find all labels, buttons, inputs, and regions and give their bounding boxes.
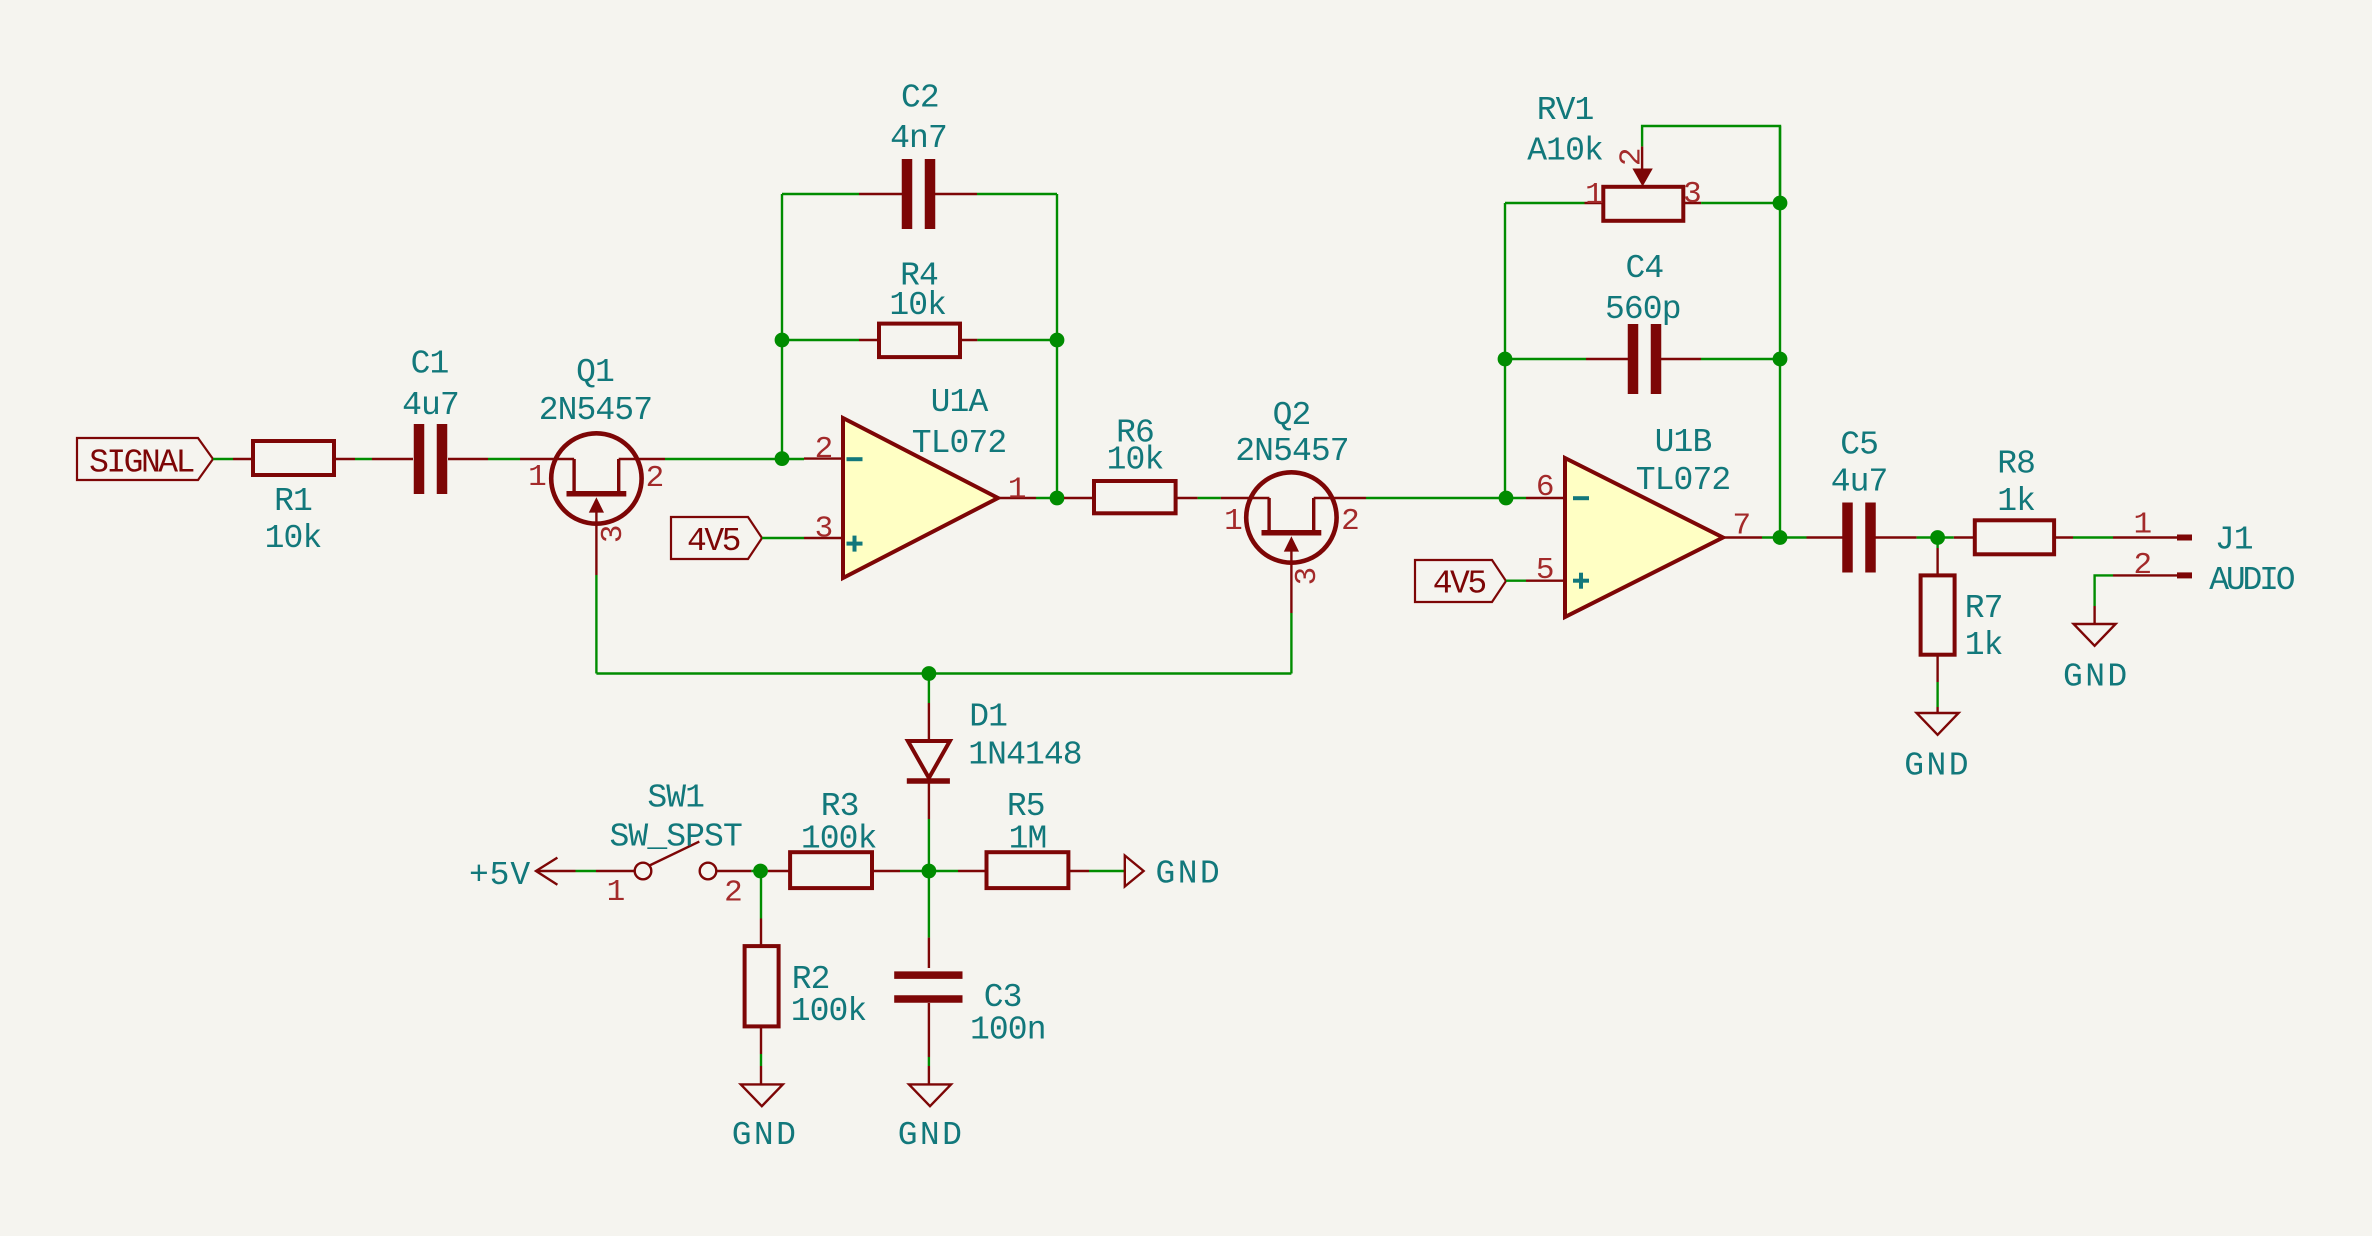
junction at R2 top <box>753 864 768 879</box>
wire R8 to J1 pin1 <box>2073 536 2113 538</box>
wire R4 row right <box>977 339 1057 341</box>
svg-text:J1: J1 <box>2215 522 2253 559</box>
wire U1B feedback left vertical <box>1504 203 1506 498</box>
svg-text:2N5457: 2N5457 <box>539 392 652 429</box>
wire feedback left vertical <box>781 194 783 459</box>
wire R7 to GND <box>1936 682 1938 707</box>
junction at U1B pin6 <box>1499 491 1514 506</box>
resistor R4 <box>859 258 977 357</box>
ground J1 <box>2063 606 2130 696</box>
net label 4V5 (U1B) <box>1415 560 1506 602</box>
wire R3 to center junction <box>900 870 929 872</box>
svg-text:U1A: U1A <box>931 384 989 421</box>
resistor R6 <box>1064 414 1198 513</box>
wire Q1 source down to bottom bus <box>595 575 597 674</box>
wire C4 row right <box>1701 358 1780 360</box>
svg-text:6: 6 <box>1536 470 1554 505</box>
wire RV1 pin3 row <box>1701 202 1780 204</box>
svg-text:2N5457: 2N5457 <box>1235 433 1348 470</box>
wire D1 to switch row <box>928 819 930 871</box>
wire J1 pin2 to GND <box>2095 575 2113 606</box>
svg-text:GND: GND <box>1904 748 1971 785</box>
svg-text:10k: 10k <box>265 520 322 557</box>
wire R1 to C1 <box>355 458 372 460</box>
resistor R8 <box>1954 446 2073 555</box>
wire R4 row left <box>782 339 859 341</box>
svg-text:2: 2 <box>724 875 742 910</box>
svg-text:2: 2 <box>1614 147 1649 166</box>
svg-text:1k: 1k <box>1997 483 2035 520</box>
wire Q2 source down to bottom bus <box>1290 613 1292 674</box>
svg-text:10k: 10k <box>1107 442 1164 479</box>
svg-text:2: 2 <box>1341 504 1359 539</box>
wire RV1 wiper loop <box>1642 126 1780 203</box>
svg-text:C4: C4 <box>1625 250 1663 287</box>
resistor R1 <box>233 441 355 557</box>
transistor Q1 2N5457 <box>520 354 665 575</box>
wire junction down to C3 <box>928 871 930 938</box>
svg-text:10k: 10k <box>889 287 946 324</box>
connector J1 AUDIO <box>2113 508 2295 600</box>
wire U1B feedback right vertical <box>1779 126 1781 537</box>
resistor R2 <box>745 919 867 1055</box>
transistor Q2 2N5457 <box>1221 397 1366 613</box>
junction feedback right R4 <box>1050 333 1065 348</box>
wire C3 to GND <box>928 1057 930 1066</box>
svg-text:100k: 100k <box>801 820 877 857</box>
svg-text:RV1: RV1 <box>1537 92 1594 129</box>
svg-text:1N4148: 1N4148 <box>968 737 1081 774</box>
ground R2 <box>732 1066 799 1154</box>
potentiometer RV1 <box>1527 92 1701 221</box>
svg-text:4u7: 4u7 <box>402 387 459 424</box>
svg-text:560p: 560p <box>1605 291 1681 328</box>
capacitor C1 <box>372 346 488 494</box>
svg-text:A10k: A10k <box>1527 132 1603 169</box>
wire Q1 drain to U1A inverting input <box>665 458 804 460</box>
wire R5 to GND flag <box>1089 870 1125 872</box>
junction at R7 top <box>1930 530 1945 545</box>
power flag GND right <box>1125 855 1222 892</box>
svg-text:2: 2 <box>2133 548 2151 583</box>
junction C4 right <box>1773 352 1788 367</box>
svg-text:R7: R7 <box>1965 590 2003 627</box>
wire U1A output to R6 <box>1036 497 1064 499</box>
wire junction down to R2 <box>760 871 762 919</box>
capacitor C3 <box>894 938 1045 1057</box>
op-amp U1A TL072 <box>804 384 1036 578</box>
wire C1 to Q1 <box>488 458 520 460</box>
svg-text:3: 3 <box>1290 567 1325 586</box>
svg-text:4u7: 4u7 <box>1831 464 1888 501</box>
wire C2 top left <box>782 193 859 195</box>
svg-text:100k: 100k <box>791 993 867 1030</box>
J1 pin 2 stub <box>2113 574 2177 576</box>
junction RV1 right <box>1773 196 1788 211</box>
svg-text:C1: C1 <box>411 346 449 383</box>
svg-text:1: 1 <box>1585 178 1603 213</box>
svg-text:TL072: TL072 <box>1636 462 1731 499</box>
ground R7 <box>1904 707 1971 785</box>
junction feedback left R4 <box>775 333 790 348</box>
junction at C3 top <box>922 864 937 879</box>
wire SIGNAL to R1 <box>213 458 233 460</box>
svg-text:C5: C5 <box>1840 426 1878 463</box>
wire R6 to Q2 <box>1198 497 1221 499</box>
wire U1B output <box>1762 536 1807 538</box>
svg-text:3: 3 <box>596 524 631 543</box>
svg-text:SIGNAL: SIGNAL <box>89 445 194 482</box>
wire 4V5 to U1B pin5 <box>1506 580 1526 582</box>
junction C4 left <box>1498 352 1513 367</box>
junction U1A output <box>1050 491 1065 506</box>
svg-text:SW1: SW1 <box>647 779 704 816</box>
svg-text:2: 2 <box>646 461 664 496</box>
resistor R5 <box>929 788 1089 888</box>
svg-text:1: 1 <box>1224 504 1242 539</box>
svg-text:GND: GND <box>2063 659 2130 696</box>
svg-text:R8: R8 <box>1997 446 2035 483</box>
svg-text:7: 7 <box>1733 508 1751 543</box>
junction at U1A pin2 <box>775 451 790 466</box>
svg-text:R5: R5 <box>1007 788 1045 825</box>
svg-text:1k: 1k <box>1965 627 2003 664</box>
svg-text:GND: GND <box>732 1117 799 1154</box>
capacitor C4 <box>1586 250 1701 394</box>
svg-text:GND: GND <box>1155 855 1222 892</box>
svg-text:1: 1 <box>607 875 625 910</box>
junction U1B output <box>1773 530 1788 545</box>
J1 pin 1 stub <box>2113 536 2177 538</box>
svg-text:2: 2 <box>815 432 833 467</box>
wire C2 top right <box>977 193 1057 195</box>
net label SIGNAL <box>77 438 213 482</box>
svg-text:4V5: 4V5 <box>1433 565 1486 602</box>
wire feedback right vertical <box>1056 194 1058 498</box>
diode D1 1N4148 <box>907 699 1082 819</box>
svg-text:1M: 1M <box>1009 820 1047 857</box>
wire R2 to GND <box>760 1054 762 1066</box>
svg-text:U1B: U1B <box>1655 424 1712 461</box>
wire RV1 pin1 row <box>1505 202 1585 204</box>
svg-text:1: 1 <box>1008 473 1026 508</box>
svg-text:1: 1 <box>528 460 546 495</box>
svg-text:3: 3 <box>815 512 833 547</box>
ground C3 <box>898 1066 965 1154</box>
svg-text:GND: GND <box>898 1117 965 1154</box>
resistor R3 <box>768 788 900 888</box>
svg-text:R3: R3 <box>821 788 859 825</box>
wire 4V5 to U1A pin3 <box>762 537 804 539</box>
svg-text:+5V: +5V <box>469 857 531 894</box>
svg-text:C2: C2 <box>901 79 939 116</box>
wire C4 row left <box>1505 358 1586 360</box>
capacitor C5 <box>1807 426 1917 572</box>
svg-text:4V5: 4V5 <box>687 523 740 560</box>
svg-text:SW_SPST: SW_SPST <box>610 819 742 856</box>
svg-text:3: 3 <box>1683 177 1701 212</box>
wire C5 to R8 <box>1917 536 1954 538</box>
op-amp U1B TL072 <box>1526 424 1762 617</box>
wire +5V to SW1 <box>576 870 597 872</box>
junction bottom bus at D1 <box>922 666 937 681</box>
svg-text:D1: D1 <box>969 699 1007 736</box>
svg-text:100n: 100n <box>970 1012 1046 1049</box>
svg-text:4n7: 4n7 <box>890 120 947 157</box>
wire Q2 drain to U1B inverting input <box>1366 497 1526 499</box>
capacitor C2 <box>859 79 977 229</box>
svg-text:Q2: Q2 <box>1273 397 1311 434</box>
svg-text:R1: R1 <box>274 483 312 520</box>
svg-text:AUDIO: AUDIO <box>2209 562 2294 599</box>
svg-text:Q1: Q1 <box>576 354 614 391</box>
svg-text:1: 1 <box>2133 508 2151 543</box>
switch SW1 SW_SPST <box>596 779 751 910</box>
svg-text:5: 5 <box>1536 553 1554 588</box>
wire bus to D1 <box>928 674 930 704</box>
wire SW1 to R3 <box>751 870 768 872</box>
svg-text:TL072: TL072 <box>912 425 1007 462</box>
net label 4V5 (U1A) <box>671 517 762 560</box>
wire bottom bus <box>596 672 1291 674</box>
power symbol +5V <box>469 857 576 894</box>
resistor R7 <box>1921 538 2003 683</box>
